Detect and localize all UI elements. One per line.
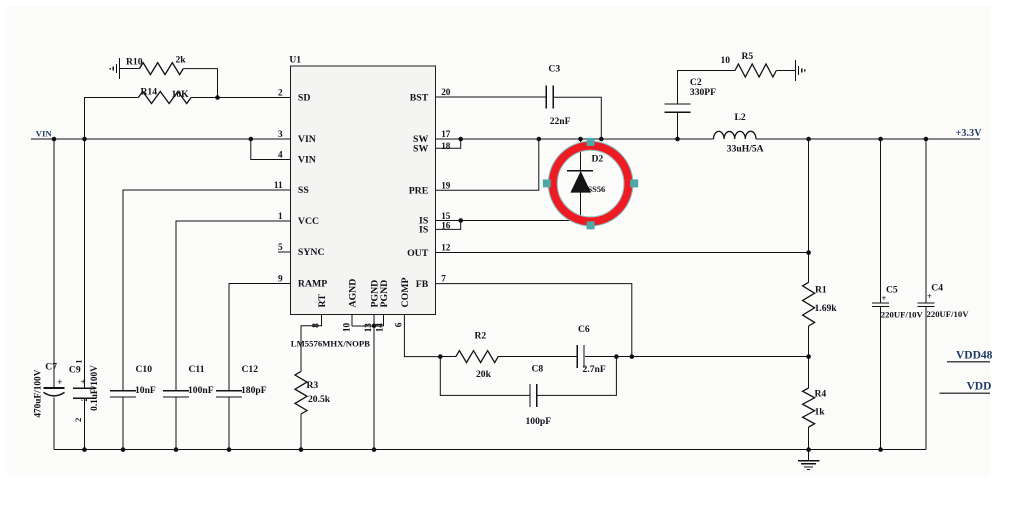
wire COMP down <box>404 315 440 357</box>
junction ground rail x=84.5 <box>82 447 87 452</box>
svg-text:COMP: COMP <box>400 278 411 308</box>
junction PGND tie <box>372 324 377 329</box>
svg-text:12: 12 <box>441 243 451 253</box>
resistor R3 <box>295 372 307 415</box>
selection handle left <box>543 179 551 187</box>
svg-text:470uF/100V: 470uF/100V <box>33 369 43 417</box>
selection handle bottom <box>587 221 595 229</box>
wire PRE to SW <box>436 139 539 190</box>
svg-text:2.7nF: 2.7nF <box>583 364 606 375</box>
capacitor C12 <box>216 390 242 392</box>
svg-text:10: 10 <box>342 323 352 333</box>
svg-text:PGND: PGND <box>379 280 390 308</box>
svg-text:U1: U1 <box>289 56 301 66</box>
svg-text:IS: IS <box>419 225 429 236</box>
svg-text:VIN: VIN <box>298 155 316 166</box>
inductor L2 <box>714 131 756 139</box>
svg-text:R2: R2 <box>475 331 487 342</box>
svg-text:L2: L2 <box>735 112 746 123</box>
svg-text:2: 2 <box>278 88 283 98</box>
junction ground rail x=374 <box>372 447 377 452</box>
wire C5 upper <box>880 139 882 303</box>
svg-text:100nF: 100nF <box>188 385 214 396</box>
svg-text:R3: R3 <box>307 380 319 391</box>
junction ground rail x=808.6 <box>806 447 811 452</box>
wire rail down to R1 <box>808 139 810 282</box>
resistor R2 <box>456 351 498 363</box>
svg-text:7: 7 <box>441 274 446 284</box>
wire C2 up <box>677 112 679 139</box>
wire SS to C10 <box>123 190 290 391</box>
svg-text:11: 11 <box>274 180 283 190</box>
svg-text:RAMP: RAMP <box>298 279 327 290</box>
capacitor C11 <box>163 390 189 392</box>
svg-text:3: 3 <box>278 129 283 139</box>
svg-text:C11: C11 <box>189 364 205 375</box>
wire VCC to C11 <box>176 221 290 391</box>
wire AGND stub <box>351 315 353 326</box>
junction SW-C2 <box>675 137 680 142</box>
svg-text:9: 9 <box>278 274 283 284</box>
junction SW-PRE <box>537 137 542 142</box>
junction rail-C4 <box>924 137 929 142</box>
wire D2 vertical <box>580 139 582 221</box>
svg-text:C4: C4 <box>931 283 943 294</box>
wire SW pin18 loop <box>436 139 461 148</box>
wire ground rail <box>54 449 926 451</box>
junction SD node <box>215 95 220 100</box>
junction VIN-C9 <box>82 137 87 142</box>
net wire VDD48 <box>947 361 990 363</box>
svg-text:C12: C12 <box>242 364 259 375</box>
wire SW rail <box>436 138 714 140</box>
svg-text:20: 20 <box>441 87 451 97</box>
svg-text:SS: SS <box>298 185 309 196</box>
wire C5 lower <box>880 306 882 449</box>
svg-text:220UF/10V: 220UF/10V <box>881 310 924 320</box>
ground (left of R10) <box>119 58 121 79</box>
wire RT to R3 <box>301 315 322 372</box>
svg-text:FB: FB <box>416 279 429 290</box>
svg-text:10: 10 <box>721 55 731 66</box>
svg-text:10K: 10K <box>172 89 190 100</box>
svg-text:C7: C7 <box>45 362 57 373</box>
junction rail-R1 <box>806 137 811 142</box>
junction FB node <box>630 354 635 359</box>
junction OUT-R1 <box>806 250 811 255</box>
svg-text:+3.3V: +3.3V <box>956 128 983 139</box>
svg-text:VDD: VDD <box>967 381 992 393</box>
svg-text:C3: C3 <box>548 64 560 75</box>
svg-text:D2: D2 <box>592 154 604 165</box>
junction ground rail x=880.6 <box>878 447 883 452</box>
svg-text:R5: R5 <box>742 51 754 62</box>
svg-text:SYNC: SYNC <box>298 247 325 258</box>
svg-text:17: 17 <box>441 129 451 139</box>
svg-text:C6: C6 <box>578 324 590 335</box>
wire C4 lower <box>925 306 927 449</box>
wire C3 to SW node <box>553 97 601 139</box>
wire VIN pin4 branch <box>251 139 291 160</box>
svg-text:220UF/10V: 220UF/10V <box>927 309 970 319</box>
wire PGND stub b <box>383 315 385 326</box>
capacitor C6 <box>576 345 578 368</box>
IC U1 LM5576MHX/NOPB body <box>290 66 435 315</box>
junction VIN-C7 <box>52 137 57 142</box>
svg-text:180pF: 180pF <box>241 385 267 396</box>
junction divider node <box>806 354 811 359</box>
resistor R10 <box>139 63 183 75</box>
resistor R1 <box>803 282 815 326</box>
wire R10 to SD node <box>183 69 217 98</box>
svg-text:+: + <box>81 376 86 386</box>
junction ground rail x=301 <box>299 447 304 452</box>
svg-text:+: + <box>927 291 932 301</box>
svg-text:VIN: VIN <box>36 128 53 138</box>
svg-text:2k: 2k <box>176 55 187 66</box>
wire C7 to ground rail <box>53 398 55 450</box>
wire VIN down to C7 <box>53 139 55 388</box>
svg-text:RT: RT <box>317 294 328 308</box>
wire R3 to ground rail <box>300 414 302 450</box>
resistor R4 <box>803 388 815 427</box>
wire gnd to R10 <box>120 68 140 70</box>
wire R14 left leg <box>85 98 139 140</box>
svg-text:18: 18 <box>441 141 451 151</box>
svg-text:R4: R4 <box>815 389 827 400</box>
svg-text:BST: BST <box>410 92 429 103</box>
capacitor C2 <box>665 103 691 105</box>
svg-text:1.69k: 1.69k <box>815 303 838 314</box>
wire R4 to ground rail <box>808 427 810 450</box>
svg-text:13: 13 <box>363 323 373 333</box>
wire C2 to R5 <box>678 71 736 105</box>
ground (right of R5) <box>795 60 797 81</box>
junction IS-16 <box>458 218 463 223</box>
svg-text:100pF: 100pF <box>526 416 552 427</box>
wire C8 branch <box>440 357 530 396</box>
svg-text:SW: SW <box>413 144 428 155</box>
wire IS line <box>436 220 581 222</box>
svg-text:R10: R10 <box>126 57 143 68</box>
capacitor C10 <box>110 390 136 392</box>
svg-text:+: + <box>57 377 62 387</box>
wire C9 to ground rail <box>84 398 86 449</box>
junction ground rail x=123 <box>121 447 126 452</box>
selection handle right <box>630 179 638 187</box>
wire IS pin16 loop <box>436 221 461 230</box>
svg-text:PRE: PRE <box>409 186 429 197</box>
junction SW-C3 <box>599 137 604 142</box>
svg-text:5: 5 <box>278 242 283 252</box>
wire C4 upper <box>925 139 927 303</box>
wire RAMP to C12 <box>229 284 290 391</box>
svg-text:C10: C10 <box>136 364 153 375</box>
svg-text:LM5576MHX/NOPB: LM5576MHX/NOPB <box>291 339 370 349</box>
capacitor C7 (polarized) <box>44 387 65 389</box>
svg-text:1: 1 <box>278 211 283 221</box>
wire down to C9 <box>84 139 86 388</box>
svg-text:19: 19 <box>441 180 451 190</box>
svg-text:SD: SD <box>298 93 311 104</box>
wire BST to C3 <box>436 96 547 98</box>
wire gnd tie <box>352 325 384 327</box>
wire R1 to node <box>808 326 810 357</box>
svg-text:C8: C8 <box>532 364 544 375</box>
svg-text:C5: C5 <box>886 285 898 296</box>
wire SYNC stub <box>278 251 290 253</box>
wire C8 to node <box>537 357 616 396</box>
junction SW-18 <box>458 137 463 142</box>
svg-text:SS56: SS56 <box>588 185 606 194</box>
annotation red circle around D2 <box>548 141 632 225</box>
svg-text:OUT: OUT <box>407 248 429 259</box>
svg-text:22nF: 22nF <box>550 116 571 127</box>
junction ground rail x=229 <box>227 447 232 452</box>
svg-text:33uH/5A: 33uH/5A <box>727 144 764 155</box>
capacitor C8 <box>529 384 531 407</box>
svg-text:VDD48: VDD48 <box>956 349 993 361</box>
capacitor C3 <box>545 86 547 109</box>
resistor R5 <box>735 64 776 77</box>
resistor R14 <box>138 92 191 104</box>
wire +3.3V rail <box>756 138 980 140</box>
wire C6 to divider node <box>585 356 809 358</box>
wire FB line <box>436 284 632 357</box>
junction SW-D2 <box>578 137 583 142</box>
svg-text:0.1uF/100V: 0.1uF/100V <box>90 365 100 411</box>
wire VIN rail <box>31 138 290 140</box>
wire node to R4 <box>808 357 810 388</box>
svg-text:R14: R14 <box>141 87 158 98</box>
capacitor C4 <box>917 302 934 304</box>
wire node to R2 <box>440 356 456 358</box>
svg-text:VIN: VIN <box>298 134 316 145</box>
wire R2 to C6 <box>498 356 576 358</box>
svg-text:20k: 20k <box>476 369 492 380</box>
wire PGND down <box>373 326 375 450</box>
wire C10 to ground rail <box>122 397 124 450</box>
junction VIN pin4 <box>249 137 254 142</box>
svg-text:AGND: AGND <box>347 279 358 308</box>
wire C12 to ground rail <box>228 397 230 450</box>
capacitor C5 <box>872 302 889 304</box>
diode D2 symbol <box>567 170 593 172</box>
junction C8 right <box>614 354 619 359</box>
selection handle top <box>587 138 595 146</box>
svg-text:10nF: 10nF <box>135 385 156 396</box>
svg-text:1: 1 <box>73 359 83 363</box>
junction ground rail x=176 <box>174 447 179 452</box>
svg-text:C9: C9 <box>69 364 81 375</box>
svg-text:+: + <box>882 293 887 303</box>
svg-text:20.5k: 20.5k <box>308 394 331 405</box>
svg-text:R1: R1 <box>815 285 827 296</box>
capacitor C9 <box>73 387 96 389</box>
junction rail-C5 <box>878 137 883 142</box>
svg-text:8: 8 <box>311 323 321 328</box>
junction COMP node <box>438 354 443 359</box>
wire PGND stub a <box>373 315 375 326</box>
net wire VDD <box>939 392 990 394</box>
svg-text:VCC: VCC <box>298 216 319 227</box>
svg-text:330PF: 330PF <box>690 87 716 98</box>
svg-text:6: 6 <box>394 322 404 327</box>
svg-text:2: 2 <box>73 418 83 422</box>
wire R5 to ground <box>776 70 795 72</box>
wire R14/R10 to pin SD <box>191 97 290 99</box>
ground (bottom) <box>808 450 810 461</box>
svg-text:1k: 1k <box>815 407 826 418</box>
wire OUT line <box>436 252 809 254</box>
wire C11 to ground rail <box>175 397 177 450</box>
svg-text:4: 4 <box>278 150 283 160</box>
